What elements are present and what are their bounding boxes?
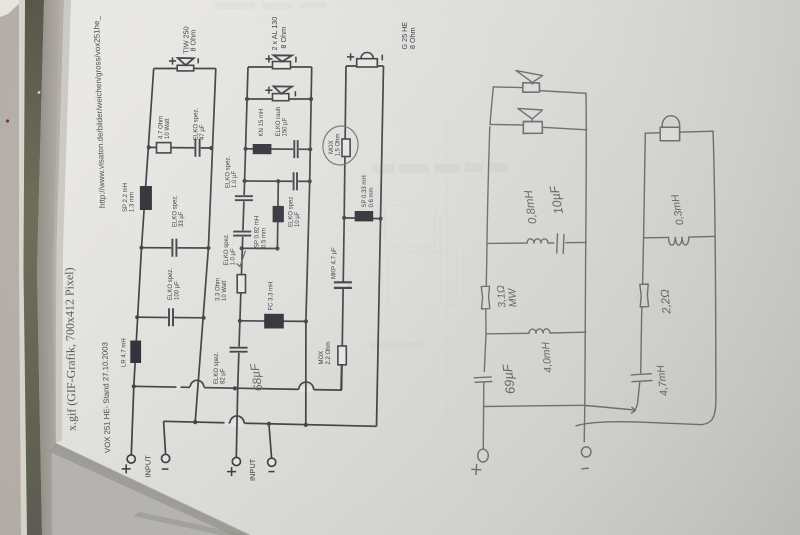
wire sketch fourth line with coil — [486, 332, 586, 334]
junction FC rung left — [238, 319, 242, 323]
wire branch3 minus rail — [377, 66, 384, 426]
resistor 3.3 Ohm 10 Watt — [237, 275, 245, 293]
terminal sketch +0 — [478, 449, 489, 462]
wire hop plus bus over branch1 minus rail — [190, 380, 204, 387]
wire sketch right vertical — [585, 93, 587, 405]
wire branch2 top line — [248, 66, 312, 68]
wire branch1 minus rail — [195, 69, 216, 423]
polarity plus input1 — [122, 464, 131, 473]
GHOSTS (print-through from back of page) — [215, 2, 507, 420]
input2 plus terminal — [232, 457, 240, 465]
wire sketch tweeter outer loop — [576, 131, 716, 426]
paper left edge shade — [56, 0, 71, 443]
capacitor sketch 69uF — [474, 377, 492, 382]
red speck — [6, 119, 9, 122]
junction plus bus input1 — [132, 384, 136, 388]
wire sketch left vertical 2nd-3rd — [487, 126, 490, 243]
capacitor MKP 4.7uF — [334, 282, 352, 288]
speaker TIW 250 — [177, 65, 194, 71]
terminal sketch -0 — [581, 447, 591, 457]
wire sketch tweeter left vertical — [644, 133, 646, 237]
speaker G 25 HE dome — [357, 59, 378, 67]
polarity minus AL130 upper — [295, 57, 297, 63]
under-surface bottom-left triangle — [50, 443, 251, 535]
junction branch2 line2 right — [309, 97, 313, 101]
input1 minus terminal — [162, 454, 170, 462]
capacitor ELKO 33uF — [172, 239, 176, 257]
wire rung C100 — [137, 316, 203, 319]
junction C10 rung right — [308, 179, 312, 183]
shadow under diagonal cut — [52, 446, 247, 535]
capacitor sketch 4,7 — [631, 374, 652, 382]
wire sketch bus extension right — [585, 406, 633, 410]
wire branch2 minus rail — [306, 67, 312, 426]
wire rung FC33 — [240, 320, 306, 323]
inductor sketch 4,0mH — [529, 329, 550, 333]
PRINTED SCHEMATIC (VOX 251 HE crossover, rotated -90 on the page) — [134, 66, 384, 426]
annotation ellipse around MOX 1,5 — [320, 123, 361, 167]
resistor MOX 1.5 Ohm — [342, 139, 350, 157]
polarity minus TIW250 — [197, 58, 199, 63]
wire input1 minus lead — [164, 421, 166, 454]
wire rung C10 — [245, 180, 310, 182]
wire branch1 top line — [154, 68, 216, 70]
resistor sketch 3,1 Ohm — [481, 286, 490, 309]
wire branch2 second line — [247, 98, 311, 100]
wire plus bus — [134, 365, 342, 390]
wire sketch top line — [493, 87, 586, 93]
inductor SP 0.82 mH — [273, 206, 284, 222]
wire hop minus bus over input2 plus wire — [230, 416, 244, 423]
wire sketch plus lead — [482, 406, 484, 448]
junction KN rung right — [308, 147, 312, 151]
wire branch2 plus rail — [236, 67, 248, 457]
input1 plus terminal — [127, 455, 135, 463]
wire sketch left vertical with resistor — [486, 243, 487, 333]
junction branch2 line2 left — [245, 97, 249, 101]
speaker sketch cone lower — [523, 122, 542, 134]
wire sketch tweeter top line — [645, 131, 713, 133]
speaker AL 130 lower — [273, 94, 289, 101]
dark strip (table edge) — [24, 0, 45, 535]
wire SP082 vertical — [276, 181, 279, 248]
junction C10 rung left — [243, 179, 247, 183]
wire rung SP033 — [344, 217, 380, 220]
inductor SP 2.2 mH — [140, 186, 152, 210]
wire rung SP082 bottom — [242, 247, 278, 249]
speaker AL 130 upper — [273, 62, 291, 69]
inductor LR 4.7 mH — [130, 341, 141, 364]
polarity minus input1 — [162, 468, 169, 470]
wire sketch fifth line — [484, 405, 585, 406]
inductor sketch 0,3mH — [669, 237, 689, 245]
junction plus bus input2 — [233, 386, 237, 390]
junction minus bus branch1 — [193, 420, 197, 424]
wire rung C33 — [142, 247, 209, 249]
junction minus bus input2 — [267, 422, 271, 426]
wire sketch second line — [490, 124, 587, 129]
junction SP082 rung right — [275, 246, 279, 250]
speaker sketch cone upper — [523, 83, 540, 92]
polarity minus AL130 lower — [294, 91, 296, 96]
capacitor ELKO 100uF — [169, 308, 173, 326]
capacitor ELKO 1.0uF upper — [235, 196, 253, 200]
wire rung KN15+C150 — [246, 148, 311, 151]
annotation checkmark — [237, 251, 246, 267]
junction C10 rung mid — [276, 179, 280, 183]
polarity minus G25HE — [381, 55, 383, 61]
junction FC rung right — [304, 319, 308, 323]
highlight band left of dark strip — [19, 0, 28, 535]
junction KN rung left — [244, 147, 248, 151]
junction rung1 left — [147, 145, 151, 149]
inductor SP 0.33 mH — [355, 211, 374, 221]
junction minus bus branch2 — [304, 423, 308, 427]
capacitor ELKO 1.0uF lower — [233, 232, 251, 236]
capacitor sketch 10uF — [557, 234, 564, 254]
polarity plus AL130 upper — [265, 55, 272, 62]
wire hop plus bus over branch2 minus rail — [299, 382, 314, 390]
inductor KN 15 mH — [253, 144, 272, 154]
junction SP082 rung left — [240, 246, 244, 250]
resistor MOX 2.2 Ohm — [338, 346, 346, 365]
junction sketch hook — [632, 407, 636, 413]
wire input2 minus lead — [269, 424, 272, 458]
wire sketch left vertical with 69uF cap — [484, 334, 486, 407]
wire sketch left vertical upper — [490, 87, 493, 125]
shadow right of strip — [37, 0, 60, 535]
polarity plus AL130 lower — [265, 87, 272, 94]
inductor sketch 0,8mH — [527, 239, 548, 243]
junction rung2 right — [206, 246, 210, 250]
junction rung3 right — [202, 316, 206, 320]
polarity plus TIW250 — [169, 57, 176, 64]
wire minus bus — [164, 421, 377, 426]
junction rung3 left — [135, 315, 139, 319]
junction rung2 left — [139, 246, 143, 250]
junction rung1 right — [209, 146, 213, 150]
wire sketch tweeter bottom line with coil — [644, 236, 715, 237]
junction SP033 rung left — [342, 216, 346, 220]
wire branch3 plus rail — [342, 66, 346, 390]
wire sketch tweeter left lower with parts — [634, 238, 643, 410]
wire sketch minus lead — [583, 405, 586, 441]
polarity plus G25HE — [347, 53, 354, 60]
white speck on strip — [38, 91, 41, 94]
junction SP033 rung right — [379, 217, 383, 221]
white wedge top-left — [0, 0, 23, 17]
capacitor ELKO rauh 150uF — [294, 140, 297, 158]
HAND DRAWN sketch — [472, 71, 716, 475]
polarity minus input2 — [269, 471, 275, 473]
wire sketch third line with coil and cap — [487, 242, 586, 243]
capacitor ELKO 10uF — [294, 172, 297, 190]
wire branch1 plus rail — [131, 69, 153, 455]
capacitor ELKO 47uF — [195, 139, 199, 157]
inductor FC 3.3 mH — [264, 314, 284, 329]
input2 minus terminal — [268, 458, 276, 466]
polarity plus input2 — [227, 467, 236, 476]
resistor 4.7 Ohm 10 Watt — [157, 143, 171, 153]
wire branch3 top line — [346, 65, 384, 67]
wire rung R1+C47 — [149, 146, 211, 149]
speaker sketch dome tweeter — [660, 127, 679, 140]
capacitor ELKO 82uF — [230, 348, 248, 352]
resistor sketch 2,2 Ohm — [640, 284, 649, 307]
